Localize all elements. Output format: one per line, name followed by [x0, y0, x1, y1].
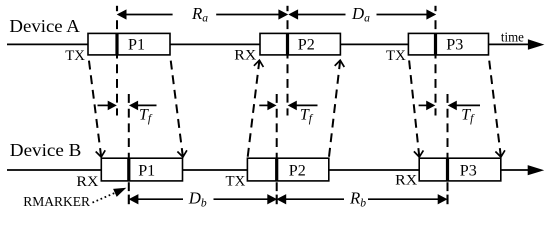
dashed vertical line: P3 TX marker line (Device A) [434, 6, 436, 116]
svg-text:time: time [501, 30, 524, 45]
dashed vertical line: P1 TX marker line (Device A) [116, 6, 118, 116]
double arrow D_b [130, 195, 276, 204]
packet P3 on Device B (RX) [419, 158, 501, 181]
dashed propagation line with down arrow: P3 left edge [409, 56, 424, 158]
svg-text:P1: P1 [128, 37, 145, 54]
dashed propagation line with up arrow: P2 right edge [329, 60, 344, 157]
dashed propagation line with down arrow: P1 right edge [170, 56, 187, 158]
svg-text:RX: RX [395, 173, 417, 189]
dashed vertical line: P3 RX marker line (Device B) [447, 94, 449, 204]
svg-text:RX: RX [76, 174, 98, 190]
svg-text:P2: P2 [289, 162, 306, 179]
TX label under P2 Device B [226, 174, 246, 190]
double arrow D_a [289, 10, 435, 19]
RX label under P3 Device B [395, 173, 417, 189]
label R_b [349, 189, 366, 210]
packet P3 on Device A (TX) [408, 33, 488, 55]
label R_a [191, 4, 208, 25]
label T_f at P2 [300, 106, 314, 124]
dashed vertical line: P2 RX marker line (Device A) [286, 6, 288, 116]
dotted pointer arrow from RMARKER to P1 marker on Device B [93, 188, 127, 203]
svg-text:Device A: Device A [9, 16, 80, 36]
packet P1 on Device B (RX) [101, 158, 182, 181]
label time [501, 30, 524, 45]
svg-text:Device B: Device B [10, 140, 82, 160]
label T_f at P1 [139, 106, 153, 124]
packet P2 on Device A (RX) [260, 33, 340, 55]
svg-text:TX: TX [226, 174, 246, 190]
dashed vertical line: P1 RX marker line (Device B) [128, 94, 130, 204]
svg-text:P3: P3 [460, 162, 477, 179]
label Device B [10, 140, 82, 160]
double arrow R_a round-trip time (Device A) [118, 10, 287, 19]
label RMARKER [23, 195, 91, 210]
svg-text:P3: P3 [446, 37, 463, 54]
TX label under P3 Device A [386, 48, 406, 64]
svg-text:RMARKER: RMARKER [23, 195, 91, 210]
Device B timeline with arrow [7, 165, 544, 175]
RX label under P1 Device B [76, 174, 98, 190]
T_f arrows at P2 [259, 101, 317, 109]
double arrow R_b [278, 195, 447, 204]
label D_b [188, 189, 207, 210]
svg-text:TX: TX [386, 48, 406, 64]
dashed propagation line with down arrow: P3 right edge [489, 56, 505, 158]
svg-text:P2: P2 [298, 37, 315, 54]
svg-text:RX: RX [234, 47, 256, 63]
dashed vertical line: P2 TX marker line (Device B) [276, 94, 278, 204]
TX label under P1 Device A [65, 48, 85, 64]
T_f arrows at P1 [98, 101, 157, 109]
packet P2 on Device B (TX) [247, 158, 328, 181]
dashed propagation line with down arrow: P1 left edge [88, 56, 105, 158]
label D_a [351, 4, 370, 25]
label Device A [9, 16, 80, 36]
svg-text:TX: TX [65, 48, 85, 64]
packet P1 on Device A (TX) [88, 33, 170, 55]
RX label under P2 Device A [234, 47, 256, 63]
dashed propagation line with up arrow: P2 left edge [248, 60, 264, 157]
svg-text:P1: P1 [138, 162, 155, 179]
label T_f at P3 [461, 106, 475, 124]
T_f arrows at P3 [419, 101, 480, 109]
Device A timeline with arrow [7, 39, 544, 50]
